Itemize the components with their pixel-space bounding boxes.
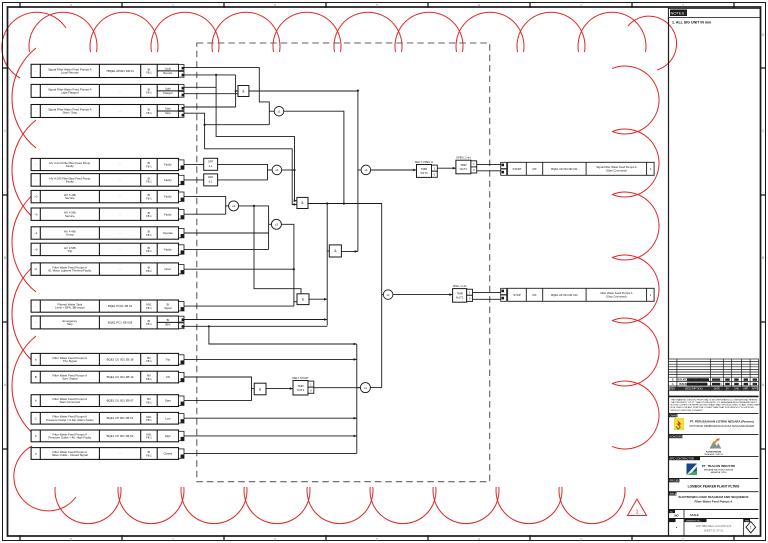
svg-text:H: H <box>35 267 37 271</box>
and-gate G11 <box>254 383 266 395</box>
svg-text:DATE: DATE <box>714 387 721 390</box>
svg-text:BQE1 PC01 XB 01: BQE1 PC01 XB 01 <box>108 304 133 308</box>
wire G1 input bracket <box>235 75 237 107</box>
svg-text:Flasged: Flasged <box>163 91 173 95</box>
svg-text:Stop: Stop <box>67 322 73 326</box>
wire G2 output to node C <box>284 111 344 203</box>
wire G10 input stub <box>382 294 384 296</box>
svg-text:PT. PERUSAHAAN LISTRIK NEGARA: PT. PERUSAHAAN LISTRIK NEGARA (Persero) <box>690 420 754 424</box>
svg-text:MX: MX <box>532 167 536 171</box>
svg-text:MELT START: MELT START <box>292 376 309 380</box>
wire G4 output to G5 bracket <box>239 206 269 250</box>
wire row5 to D2 <box>184 179 204 181</box>
svg-text:DRAWING NO.: DRAWING NO. <box>686 520 701 523</box>
input block row 18 <box>31 448 178 460</box>
revision diamond <box>746 522 756 533</box>
svg-text:MX: MX <box>532 293 536 297</box>
svg-text:-: - <box>120 178 121 182</box>
svg-text:REV: REV <box>670 387 675 390</box>
svg-text:-: - <box>120 247 121 251</box>
or-gate G4 <box>229 201 239 211</box>
svg-text:Trip: Trip <box>67 249 72 253</box>
input block row 9 <box>31 243 178 255</box>
wire T2 to output O1 pin1 <box>477 164 501 166</box>
svg-text:BQE1 CU 001 ZB 19: BQE1 CU 001 ZB 19 <box>107 375 134 379</box>
wire G3 output to G6 feeder <box>282 169 295 171</box>
svg-text:A: A <box>672 382 674 386</box>
svg-text:REV: REV <box>745 521 750 523</box>
svg-text:2: 2 <box>682 537 684 541</box>
svg-text:-: - <box>35 321 36 325</box>
svg-text:≥1: ≥1 <box>275 223 279 227</box>
scale row <box>669 509 759 511</box>
svg-text:Trip: Trip <box>165 358 170 362</box>
project section <box>669 478 759 480</box>
svg-text:JAKARTA 12950: JAKARTA 12950 <box>710 471 727 474</box>
svg-text:OFF: OFF <box>208 175 214 179</box>
input block row 4 <box>31 158 178 170</box>
svg-text:SHEET 01 OF 01: SHEET 01 OF 01 <box>704 529 724 532</box>
wire G12 bus stub <box>357 387 361 389</box>
wire T2 to output O1 pin0 <box>477 170 501 172</box>
svg-text:BQE1 CU 001 ZB 07: BQE1 CU 001 ZB 07 <box>107 399 134 403</box>
svg-text:-: - <box>120 267 121 271</box>
svg-text:FB 1: FB 1 <box>146 164 152 168</box>
svg-text:ON: ON <box>166 375 170 379</box>
wire row6 to G4 bracket <box>184 197 226 215</box>
input block row 11 <box>31 300 178 312</box>
wire G7 output to G8 bus <box>309 298 327 300</box>
off-delay block D1 <box>204 158 218 170</box>
svg-text:C: C <box>4 129 7 133</box>
svg-text:7: 7 <box>172 4 174 8</box>
svg-text:Valve Outlet - Closed Signal: Valve Outlet - Closed Signal <box>52 453 88 457</box>
svg-text:-: - <box>120 195 121 199</box>
svg-text:8: 8 <box>70 4 72 8</box>
svg-text:FB 1: FB 1 <box>146 180 152 184</box>
off-delay block D2 <box>204 174 218 186</box>
wire G4 bracket stub <box>226 205 229 207</box>
svg-text:≥1: ≥1 <box>387 293 391 297</box>
svg-text:-: - <box>35 163 36 167</box>
contractor section with TRACON logo <box>669 455 759 457</box>
wire row8 to G5 bracket <box>184 232 269 234</box>
wire row13 to G12 bus <box>184 358 357 360</box>
svg-text:Faulty: Faulty <box>66 164 74 168</box>
svg-text:Sync Signal: Sync Signal <box>62 377 78 381</box>
svg-text:Faulty: Faulty <box>164 178 172 182</box>
svg-text:TW: TW <box>726 379 731 382</box>
svg-text:-: - <box>120 109 121 113</box>
svg-text:BQE1 AP 001 DR 012: BQE1 AP 001 DR 012 <box>551 293 578 297</box>
svg-text:2: 2 <box>682 4 684 8</box>
wire G7 input stub <box>294 301 297 303</box>
input block row 8 <box>31 227 178 239</box>
wire G5 bracket stub <box>269 223 272 225</box>
svg-text:Level < 85%, BB (stop): Level < 85%, BB (stop) <box>55 306 85 310</box>
svg-text:3: 3 <box>580 4 582 8</box>
svg-text:6: 6 <box>274 537 276 541</box>
svg-text:D: D <box>762 33 765 37</box>
svg-text:BI: BI <box>167 318 170 322</box>
svg-text:Light: Light <box>165 87 171 91</box>
svg-text:El. Motor Lighters Thermal Fau: El. Motor Lighters Thermal Faulty <box>48 269 91 273</box>
wire G12 input bus <box>356 344 358 453</box>
title section <box>669 491 759 493</box>
or-gate G3 <box>272 165 282 175</box>
svg-text:~1: ~1 <box>34 231 38 235</box>
svg-text:%1T1: %1T1 <box>297 388 305 392</box>
svg-text:OWNER: OWNER <box>670 414 680 418</box>
wire T3 to output O2 pin1 <box>473 291 501 293</box>
svg-text:20/11/20: 20/11/20 <box>712 379 722 382</box>
svg-text:%1T1: %1T1 <box>460 167 468 171</box>
svg-text:Pressure Outlet < 6 bar, Alarm: Pressure Outlet < 6 bar, Alarm Faulty <box>46 418 94 422</box>
svg-text:High: High <box>165 434 171 438</box>
svg-text:FB 1: FB 1 <box>146 91 152 95</box>
notes box <box>669 9 761 18</box>
svg-text:Local: Local <box>165 67 172 71</box>
svg-text:d 1: d 1 <box>209 179 213 183</box>
svg-text:-: - <box>120 163 121 167</box>
owner section with PLN logo <box>669 412 759 414</box>
svg-text:DESCRIPTION: DESCRIPTION <box>685 386 703 390</box>
wire G5 output down to G7 <box>281 224 294 306</box>
svg-text:≥1: ≥1 <box>277 109 281 113</box>
svg-text:LOMBOK PEAKER PLANT PLTMG: LOMBOK PEAKER PLANT PLTMG <box>688 484 740 488</box>
wire G8 input bus <box>326 204 328 326</box>
wire row12 upper to G8 bus <box>184 319 327 321</box>
svg-text:-: - <box>120 89 121 93</box>
output block O2 <box>501 288 507 294</box>
svg-text:STOP: STOP <box>513 293 521 297</box>
svg-text:B: B <box>35 375 37 379</box>
svg-text:-: - <box>120 212 121 216</box>
svg-text:-: - <box>120 452 121 456</box>
svg-text:Closed: Closed <box>163 452 172 456</box>
svg-text:SHUTDOWN LOGIC DIAGRAM AND SEQ: SHUTDOWN LOGIC DIAGRAM AND SEQUENCE <box>678 495 748 499</box>
or-gate G9 <box>361 165 371 175</box>
svg-text:%1T1: %1T1 <box>420 171 428 175</box>
svg-text:APP: APP <box>752 387 757 390</box>
svg-text:Trip Signal: Trip Signal <box>63 359 77 363</box>
revision table <box>669 359 759 391</box>
svg-text:FB 1: FB 1 <box>146 249 152 253</box>
svg-text:Light Flasged: Light Flasged <box>61 91 79 95</box>
wire T1 to T2 <box>437 167 456 169</box>
input block row 12 <box>31 316 178 329</box>
svg-text:TW: TW <box>726 383 731 386</box>
svg-text:KONSORSIUM: KONSORSIUM <box>670 435 688 439</box>
svg-text:MELT OPEN H: MELT OPEN H <box>415 160 433 164</box>
svg-text:FB 1: FB 1 <box>146 359 152 363</box>
svg-text:FB 1: FB 1 <box>146 418 152 422</box>
svg-text:Faulty: Faulty <box>66 180 74 184</box>
svg-text:5: 5 <box>376 537 378 541</box>
svg-text:≥1: ≥1 <box>232 204 236 208</box>
wire row2 Light to node A <box>184 86 216 88</box>
and-gate G7 <box>297 294 309 305</box>
svg-text:Pressure Outlet < 4b, High Fau: Pressure Outlet < 4b, High Faulty <box>48 436 91 440</box>
wire G9 output to T1 <box>371 169 417 171</box>
input block row 16 <box>31 412 178 424</box>
junction node B <box>204 124 206 126</box>
svg-text:Stop: Stop <box>165 111 171 115</box>
svg-text:OFF: OFF <box>208 160 214 164</box>
svg-text:LPP-SBE-MEC-LOG-DW-074: LPP-SBE-MEC-LOG-DW-074 <box>696 524 732 528</box>
svg-text:Signal: Signal <box>164 306 172 310</box>
svg-text:1: 1 <box>635 510 638 516</box>
junction node C <box>343 202 345 204</box>
svg-text:5: 5 <box>376 4 378 8</box>
svg-text:Filter Water Feed Pumps A: Filter Water Feed Pumps A <box>695 499 734 503</box>
consortium logo section <box>669 433 759 435</box>
wire G8 bus stub <box>327 250 329 252</box>
svg-text:EPC CONTRACTOR: EPC CONTRACTOR <box>670 457 694 461</box>
svg-text:ISSUED FOR REVIEW: ISSUED FOR REVIEW <box>679 382 708 386</box>
svg-text:7: 7 <box>172 537 174 541</box>
svg-text:FB 1: FB 1 <box>146 377 152 381</box>
svg-text:APP: APP <box>743 387 748 390</box>
input block row 17 <box>31 430 178 442</box>
svg-text:FB 1: FB 1 <box>146 400 152 404</box>
svg-text:05/10/20: 05/10/20 <box>712 383 722 386</box>
input block row 5 <box>31 174 178 187</box>
input block row 2 <box>31 84 178 97</box>
svg-text:Remote: Remote <box>163 71 173 75</box>
svg-text:FB 1: FB 1 <box>146 233 152 237</box>
svg-text:Start / Stop: Start / Stop <box>63 111 78 115</box>
wire row4 to D1 <box>184 163 204 165</box>
svg-text:C: C <box>762 129 765 133</box>
wire row3 Start to G1 bracket <box>184 106 236 108</box>
svg-text:FB 1: FB 1 <box>146 306 152 310</box>
wire branch node A to G6 upper input <box>216 75 297 201</box>
svg-text:BQE1 CP 001 XB 52: BQE1 CP 001 XB 52 <box>107 434 134 438</box>
svg-text:≥1: ≥1 <box>275 168 279 172</box>
or-gate G10 <box>383 290 393 300</box>
svg-text:MENARA KADIN INDONESIA: MENARA KADIN INDONESIA <box>704 469 734 472</box>
junction node H <box>293 169 295 171</box>
svg-text:TITLE: TITLE <box>670 492 677 496</box>
wire row9 to G5 bracket <box>184 248 269 250</box>
and-gate G8 <box>329 245 341 257</box>
arrowheads <box>235 90 456 438</box>
svg-text:PROJECT: PROJECT <box>670 479 683 483</box>
svg-text:Start: Start <box>165 107 171 111</box>
wire G1 bracket stub <box>236 90 238 92</box>
svg-text:1. ALL SIG UNIT IN mm: 1. ALL SIG UNIT IN mm <box>672 20 711 24</box>
svg-text:d 1: d 1 <box>209 164 213 168</box>
wire row3 Stop to G6 lower input <box>184 113 297 204</box>
svg-text:AH: AH <box>735 383 739 386</box>
junction node G <box>326 202 328 204</box>
wire node F branch to G12 bus <box>209 326 357 344</box>
revision triangle 1 <box>628 499 647 516</box>
svg-text:CHK: CHK <box>734 387 739 390</box>
svg-text:3: 3 <box>580 537 582 541</box>
svg-text:NOR USED FOR ANY PURPOSE OTHER: NOR USED FOR ANY PURPOSE OTHER THAN THAT… <box>671 406 755 409</box>
wire row16 to G12 bus <box>184 417 357 419</box>
svg-text:REKADAYA - TRACON: REKADAYA - TRACON <box>704 453 723 456</box>
svg-text:BQE1 PC1 XB 028: BQE1 PC1 XB 028 <box>108 320 133 324</box>
wire row7 to G4 bracket <box>184 213 226 215</box>
svg-text:FB 1: FB 1 <box>146 214 152 218</box>
svg-text:Local Remote: Local Remote <box>61 71 79 75</box>
input block row 14 <box>31 371 178 383</box>
wire row12 lower to G8 bus <box>184 325 327 327</box>
wire G8 output to G9 feeder <box>341 250 358 252</box>
svg-text:Service: Service <box>65 214 75 218</box>
wire node E branch to G7 top input <box>254 206 301 294</box>
dashed package boundary <box>197 43 490 482</box>
svg-text:BI: BI <box>167 303 170 307</box>
svg-text:OPEN 1 Hrs: OPEN 1 Hrs <box>456 156 471 160</box>
svg-text:BQE1 AP 001 DR 011: BQE1 AP 001 DR 011 <box>551 167 578 171</box>
wire T3 to output O2 pin0 <box>473 298 501 300</box>
svg-text:Faulty: Faulty <box>164 163 172 167</box>
svg-text:85%: 85% <box>165 323 171 327</box>
svg-text:AH: AH <box>735 379 739 382</box>
svg-text:Service: Service <box>65 196 75 200</box>
junction node F <box>208 325 210 327</box>
svg-text:~0: ~0 <box>34 195 38 199</box>
input block row 6 <box>31 190 178 202</box>
wire G11 output to T4 <box>266 388 293 390</box>
wire row14 to G11 bracket <box>184 377 252 401</box>
and-gate G1 <box>238 86 249 97</box>
svg-text:~0: ~0 <box>34 248 38 252</box>
wire D1 output to G3 bracket <box>218 164 268 180</box>
svg-text:ISSUED FOR APPROVAL: ISSUED FOR APPROVAL <box>677 378 710 382</box>
svg-text:WITHOUT WRITTEN CONSENT.: WITHOUT WRITTEN CONSENT. <box>671 410 704 412</box>
svg-text:Group: Group <box>66 233 74 237</box>
input block row 1 <box>31 64 178 77</box>
svg-text:SCALE: SCALE <box>690 513 699 517</box>
junction node A <box>215 74 217 76</box>
svg-text:PT_TRACON INDUSTRI: PT_TRACON INDUSTRI <box>702 464 736 468</box>
svg-text:FB 1: FB 1 <box>146 196 152 200</box>
drawing number row <box>669 518 759 520</box>
junction node E <box>253 205 255 207</box>
wire G3 bracket stub <box>268 169 273 171</box>
output block O1 <box>501 162 507 168</box>
svg-text:%1T1: %1T1 <box>456 295 464 299</box>
wire G1 output to G9 feeder <box>249 91 358 251</box>
and-gate G6 <box>297 197 308 208</box>
svg-text:THE DRAWING, DESIGN, PROPOSAL: THE DRAWING, DESIGN, PROPOSAL IS INCORPO… <box>671 399 758 402</box>
input block row 3 <box>31 105 178 118</box>
svg-text:FB 1: FB 1 <box>146 436 152 440</box>
wire row1 Local to G2 bracket <box>184 68 269 125</box>
wire row17 to G12 bus <box>184 435 357 437</box>
right panel divider <box>668 7 670 536</box>
svg-text:BY: BY <box>726 387 730 390</box>
svg-text:FB 1: FB 1 <box>146 269 152 273</box>
svg-text:BQE1 CU 001 ZB 18: BQE1 CU 001 ZB 18 <box>107 357 134 361</box>
wire D2 output to G3 bracket <box>218 179 268 181</box>
svg-text:FB 1: FB 1 <box>146 322 152 326</box>
input block row 15 <box>31 395 178 407</box>
wire row10 to node D <box>184 268 294 270</box>
or-gate G5 <box>271 219 281 229</box>
wire node B branch to G2 bracket <box>205 124 270 126</box>
svg-text:(Stop Command): (Stop Command) <box>606 294 627 298</box>
junction node D <box>293 268 295 270</box>
wire row15 to G11 bracket <box>184 400 252 402</box>
svg-text:Open: Open <box>164 267 171 271</box>
input block row 10 <box>31 263 178 275</box>
svg-text:-: - <box>35 178 36 182</box>
wire network <box>184 68 501 454</box>
or-gate G12 <box>360 383 370 393</box>
wire T4 output to G12 <box>314 387 360 389</box>
svg-text:UNIT INDUK PEMBANGUNAN NUSA TE: UNIT INDUK PEMBANGUNAN NUSA TENGGARA BAR… <box>689 425 755 428</box>
svg-text:Start: Start <box>165 399 171 403</box>
svg-text:MS: MS <box>744 379 748 382</box>
wire row1 Remote to G1 bracket <box>184 74 236 76</box>
svg-text:FB 1: FB 1 <box>146 111 152 115</box>
svg-text:MS: MS <box>744 383 748 386</box>
svg-text:4: 4 <box>478 537 480 541</box>
svg-text:Faulty: Faulty <box>164 195 172 199</box>
svg-text:FB 1: FB 1 <box>146 71 152 75</box>
svg-text:NOTES :: NOTES : <box>670 11 686 16</box>
svg-text:START: START <box>513 167 522 171</box>
svg-text:~0: ~0 <box>34 212 38 216</box>
svg-text:8: 8 <box>70 537 72 541</box>
svg-text:Start Command: Start Command <box>60 400 81 404</box>
svg-text:-: - <box>35 69 36 73</box>
svg-text:SC: SC <box>670 512 673 514</box>
wire G6 output to G10 feeder <box>308 204 382 388</box>
wire row11 to G7 riser <box>184 305 294 307</box>
svg-text:-: - <box>120 231 121 235</box>
svg-text:Faulty: Faulty <box>164 248 172 252</box>
or-gate G2 <box>274 106 284 116</box>
svg-text:1: 1 <box>750 525 752 529</box>
svg-text:(Start Command): (Start Command) <box>606 168 627 172</box>
svg-text:≥1: ≥1 <box>364 168 368 172</box>
svg-text:TBQE1 AP001 DR 01: TBQE1 AP001 DR 01 <box>106 69 134 73</box>
input block row 7 <box>31 208 178 220</box>
svg-text:-: - <box>35 89 36 93</box>
wire G9 input stub <box>358 169 361 171</box>
svg-text:FB 1: FB 1 <box>146 453 152 457</box>
svg-text:4: 4 <box>478 4 480 8</box>
svg-text:B: B <box>672 378 674 382</box>
wire G10 output to T3 <box>393 294 453 296</box>
wire row18 to G12 bus <box>184 452 357 454</box>
svg-text:Operate: Operate <box>163 231 174 235</box>
wire G2 bracket stub <box>269 110 274 112</box>
svg-text:Faulty: Faulty <box>164 212 172 216</box>
svg-text:6: 6 <box>274 4 276 8</box>
input block row 13 <box>31 353 178 365</box>
wire G11 bracket stub <box>252 388 255 390</box>
svg-text:BQE1 CP 001 XB 51: BQE1 CP 001 XB 51 <box>107 416 134 420</box>
svg-text:D: D <box>4 33 7 37</box>
wire G12 output riser <box>370 387 381 389</box>
svg-text:-: - <box>35 109 36 113</box>
svg-text:≥1: ≥1 <box>364 386 368 390</box>
wire row2 Flasged to G1 <box>184 93 238 95</box>
svg-text:-: - <box>35 304 36 308</box>
svg-text:SPEL 1 Hrs: SPEL 1 Hrs <box>453 284 468 288</box>
